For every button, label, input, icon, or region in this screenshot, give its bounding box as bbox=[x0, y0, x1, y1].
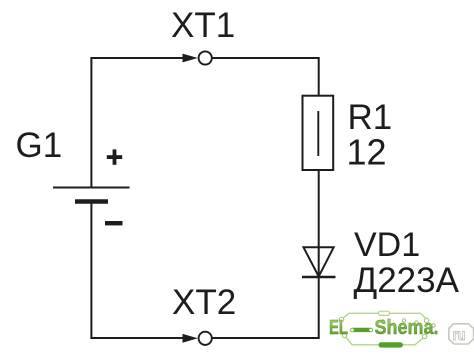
logo trace component bump on top trace bbox=[379, 311, 390, 315]
wire: top-left horizontal from left branch to XT1 arrow bbox=[91, 57, 183, 59]
svg-text:Shema.: Shema. bbox=[375, 317, 439, 339]
logo letter-top vias bbox=[381, 320, 384, 323]
diode VD1 (triangle, anode at top) bbox=[304, 247, 334, 276]
battery G1: negative plate (short thick) bbox=[75, 199, 108, 204]
svg-text:12: 12 bbox=[347, 132, 387, 173]
svg-text:XT1: XT1 bbox=[171, 6, 235, 45]
svg-text:ru: ru bbox=[453, 327, 466, 344]
wire: top-right horizontal from XT1 to right branch corner bbox=[213, 57, 320, 59]
resistor R1 (rectangle body) bbox=[303, 96, 334, 170]
svg-text:EL: EL bbox=[329, 317, 348, 339]
plus sign of G1 bbox=[107, 149, 122, 164]
wire: left vertical from top wire down to battery positive plate bbox=[90, 57, 92, 187]
logo trace outline bottom with thick bar bbox=[345, 336, 425, 345]
terminal XT1 (circle) bbox=[199, 51, 212, 64]
arrow into terminal XT1 bbox=[183, 54, 198, 63]
resistor R1 inner vertical line bbox=[317, 111, 319, 156]
arrow into terminal XT2 bbox=[183, 334, 198, 343]
wire: bottom-left horizontal from left branch to XT2 arrow bbox=[91, 337, 183, 339]
logo EL-Shema.ru watermark bbox=[329, 311, 474, 347]
wire: bottom-right horizontal from XT2 to right branch corner bbox=[213, 337, 320, 339]
terminal XT2 (circle) bbox=[199, 332, 212, 345]
wire: right vertical from top wire to resistor R1 top bbox=[318, 57, 320, 96]
logo trace outline top bbox=[342, 313, 427, 319]
logo dash (thick green bar) bbox=[351, 328, 373, 332]
svg-text:XT2: XT2 bbox=[172, 283, 236, 322]
svg-text:VD1: VD1 bbox=[354, 226, 420, 264]
wire: left vertical from battery negative plate down to bottom wire bbox=[90, 203, 92, 339]
wire: right vertical from resistor R1 bottom to diode VD1 apex bbox=[318, 170, 320, 277]
wire: right vertical from diode VD1 cathode to bottom wire bbox=[318, 277, 320, 339]
svg-text:G1: G1 bbox=[16, 126, 63, 165]
svg-text:Д223А: Д223А bbox=[354, 261, 460, 300]
battery G1: positive plate (long thin) bbox=[53, 187, 130, 189]
logo trace vias (small circles) bbox=[339, 317, 343, 321]
diode VD1 cathode bar bbox=[302, 276, 336, 279]
minus sign of G1 bbox=[105, 221, 123, 225]
logo .ru hexagon bbox=[449, 324, 474, 344]
